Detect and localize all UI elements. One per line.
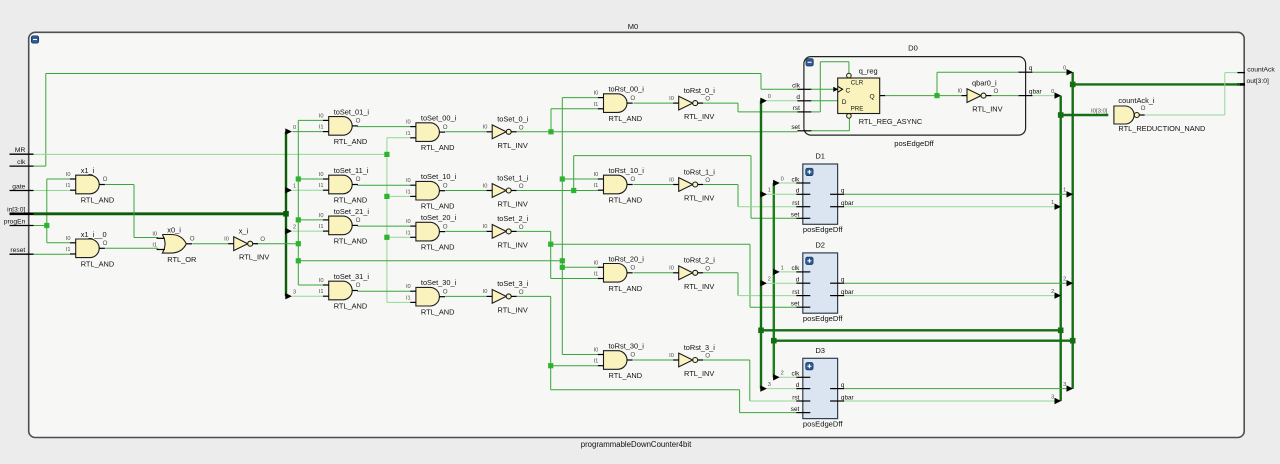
svg-text:O: O [356, 118, 361, 125]
svg-text:out[3:0]: out[3:0] [1247, 78, 1269, 85]
svg-text:O: O [356, 217, 361, 224]
svg-text:I1: I1 [594, 272, 599, 278]
svg-text:O: O [519, 124, 524, 131]
svg-text:I0: I0 [319, 213, 324, 219]
svg-text:x0_i: x0_i [167, 225, 181, 234]
svg-text:M0: M0 [628, 22, 638, 31]
svg-text:toSet_30_i: toSet_30_i [421, 278, 457, 287]
svg-text:rst: rst [792, 200, 799, 207]
svg-text:q: q [841, 188, 845, 195]
svg-text:I0: I0 [406, 284, 411, 290]
svg-text:O: O [630, 95, 635, 102]
svg-text:O: O [630, 352, 635, 359]
svg-text:qbar: qbar [1029, 88, 1043, 95]
svg-text:RTL_AND: RTL_AND [609, 371, 643, 380]
svg-text:toRst_1_i: toRst_1_i [684, 167, 716, 176]
svg-text:rst: rst [793, 105, 800, 112]
svg-text:toRst_10_i: toRst_10_i [609, 166, 645, 175]
svg-text:d: d [796, 277, 800, 284]
svg-text:1: 1 [293, 184, 296, 190]
svg-text:set: set [791, 406, 800, 413]
svg-text:RTL_INV: RTL_INV [684, 282, 714, 291]
svg-text:1: 1 [1051, 200, 1054, 206]
svg-text:x_i: x_i [239, 227, 249, 236]
svg-text:I0: I0 [669, 177, 674, 183]
svg-text:O: O [443, 288, 448, 295]
svg-text:I0: I0 [483, 125, 488, 131]
svg-text:toSet_21_i: toSet_21_i [334, 207, 370, 216]
svg-text:RTL_INV: RTL_INV [239, 253, 269, 262]
svg-text:I1: I1 [406, 230, 411, 236]
svg-text:O: O [260, 236, 265, 243]
svg-text:I1: I1 [319, 125, 324, 131]
svg-text:I1: I1 [319, 289, 324, 295]
svg-text:toSet_01_i: toSet_01_i [334, 107, 370, 116]
svg-text:O: O [443, 182, 448, 189]
svg-text:O: O [1141, 105, 1146, 112]
svg-text:RTL_INV: RTL_INV [684, 369, 714, 378]
svg-text:I0: I0 [319, 172, 324, 178]
svg-text:I1: I1 [66, 183, 71, 189]
svg-text:D0: D0 [908, 43, 918, 52]
svg-text:RTL_INV: RTL_INV [498, 141, 528, 150]
svg-text:posEdgeDff: posEdgeDff [803, 225, 843, 234]
svg-text:O: O [356, 176, 361, 183]
svg-text:I1: I1 [406, 189, 411, 195]
svg-text:q_reg: q_reg [859, 66, 878, 75]
svg-text:O: O [705, 96, 710, 103]
svg-text:1: 1 [1063, 188, 1066, 194]
svg-text:RTL_AND: RTL_AND [334, 302, 368, 311]
svg-text:2: 2 [781, 371, 784, 377]
svg-text:2: 2 [1063, 277, 1066, 283]
svg-text:RTL_INV: RTL_INV [498, 305, 528, 314]
svg-text:I0: I0 [483, 289, 488, 295]
svg-text:toSet_11_i: toSet_11_i [334, 166, 369, 175]
svg-text:I0: I0 [594, 260, 599, 266]
svg-text:d: d [796, 188, 800, 195]
svg-text:O: O [705, 353, 710, 360]
svg-text:clk: clk [791, 371, 800, 378]
svg-text:RTL_REDUCTION_NAND: RTL_REDUCTION_NAND [1118, 124, 1205, 133]
svg-text:toRst_2_i: toRst_2_i [684, 256, 716, 265]
svg-text:toRst_00_i: toRst_00_i [609, 85, 645, 94]
svg-text:RTL_INV: RTL_INV [684, 194, 714, 203]
svg-text:D3: D3 [815, 346, 825, 355]
svg-text:I0: I0 [319, 113, 324, 119]
svg-text:toSet_1_i: toSet_1_i [497, 173, 529, 182]
svg-text:I0: I0 [669, 266, 674, 272]
svg-text:I1: I1 [406, 295, 411, 301]
svg-text:I0: I0 [594, 91, 599, 97]
svg-text:x1_i: x1_i [81, 166, 95, 175]
svg-text:O: O [103, 240, 108, 247]
svg-text:D2: D2 [815, 241, 825, 250]
svg-text:toSet_00_i: toSet_00_i [421, 114, 457, 123]
svg-text:PRE: PRE [851, 105, 864, 112]
svg-text:I0: I0 [669, 96, 674, 102]
svg-text:q: q [841, 277, 845, 284]
svg-text:qbar: qbar [841, 394, 855, 401]
svg-text:RTL_INV: RTL_INV [498, 200, 528, 209]
svg-text:RTL_REG_ASYNC: RTL_REG_ASYNC [859, 117, 923, 126]
svg-text:O: O [630, 265, 635, 272]
svg-text:progEn: progEn [4, 218, 26, 225]
svg-text:MR: MR [15, 147, 26, 154]
svg-text:I0: I0 [594, 348, 599, 354]
svg-text:I1: I1 [594, 359, 599, 365]
svg-text:rst: rst [792, 289, 799, 296]
svg-text:I0: I0 [594, 172, 599, 178]
svg-text:RTL_AND: RTL_AND [334, 236, 368, 245]
svg-text:RTL_AND: RTL_AND [421, 243, 455, 252]
svg-text:toRst_30_i: toRst_30_i [609, 342, 645, 351]
svg-text:3: 3 [1063, 382, 1066, 388]
svg-text:RTL_INV: RTL_INV [498, 240, 528, 249]
svg-text:in[3:0]: in[3:0] [7, 207, 25, 214]
svg-text:I0: I0 [406, 120, 411, 126]
svg-text:q: q [1029, 65, 1033, 72]
svg-text:I1: I1 [66, 247, 71, 253]
svg-text:I0: I0 [66, 236, 71, 242]
svg-text:clk: clk [791, 265, 800, 272]
svg-text:clk: clk [792, 83, 801, 90]
svg-text:RTL_OR: RTL_OR [167, 255, 196, 264]
svg-text:O: O [705, 265, 710, 272]
svg-text:toSet_0_i: toSet_0_i [497, 115, 529, 124]
svg-text:toSet_31_i: toSet_31_i [334, 272, 370, 281]
svg-text:0: 0 [781, 176, 784, 182]
svg-text:I0: I0 [224, 237, 229, 243]
svg-text:gate: gate [12, 183, 25, 190]
svg-text:RTL_AND: RTL_AND [334, 196, 368, 205]
svg-text:toSet_3_i: toSet_3_i [497, 279, 529, 288]
svg-text:toRst_20_i: toRst_20_i [609, 254, 645, 263]
svg-text:toSet_2_i: toSet_2_i [497, 214, 529, 223]
svg-text:2: 2 [768, 277, 771, 283]
svg-text:O: O [705, 177, 710, 184]
svg-text:O: O [994, 88, 999, 95]
svg-text:Q: Q [870, 93, 875, 100]
svg-text:0: 0 [768, 94, 771, 100]
svg-text:toSet_20_i: toSet_20_i [421, 213, 457, 222]
svg-text:RTL_INV: RTL_INV [972, 105, 1002, 114]
svg-text:clk: clk [17, 159, 26, 166]
svg-text:RTL_AND: RTL_AND [421, 308, 455, 317]
svg-text:I0[3:0]: I0[3:0] [1091, 109, 1108, 115]
svg-text:D1: D1 [815, 152, 825, 161]
svg-text:I0: I0 [669, 353, 674, 359]
svg-text:3: 3 [768, 382, 771, 388]
svg-text:RTL_AND: RTL_AND [421, 202, 455, 211]
svg-text:reset: reset [10, 247, 25, 254]
svg-text:O: O [103, 176, 108, 183]
svg-text:RTL_AND: RTL_AND [81, 259, 115, 268]
svg-text:countAck: countAck [1247, 66, 1275, 73]
svg-text:posEdgeDff: posEdgeDff [894, 139, 934, 148]
svg-text:RTL_AND: RTL_AND [421, 143, 455, 152]
svg-text:O: O [519, 183, 524, 190]
svg-text:x1_i__0: x1_i__0 [81, 230, 107, 239]
svg-text:I0: I0 [406, 219, 411, 225]
svg-text:O: O [519, 289, 524, 296]
svg-text:RTL_AND: RTL_AND [609, 284, 643, 293]
svg-text:I1: I1 [406, 131, 411, 137]
svg-text:I0: I0 [66, 172, 71, 178]
svg-text:clk: clk [791, 176, 800, 183]
svg-text:3: 3 [293, 290, 296, 296]
svg-text:RTL_AND: RTL_AND [609, 196, 643, 205]
svg-text:set: set [791, 124, 800, 131]
svg-text:I1: I1 [152, 243, 157, 249]
svg-text:C: C [846, 87, 851, 94]
svg-text:rst: rst [792, 394, 799, 401]
svg-text:d: d [796, 382, 800, 389]
svg-text:RTL_AND: RTL_AND [609, 114, 643, 123]
svg-text:I0: I0 [483, 224, 488, 230]
svg-text:I1: I1 [319, 224, 324, 230]
svg-text:set: set [791, 212, 800, 219]
svg-text:q: q [841, 382, 845, 389]
svg-text:1: 1 [781, 265, 784, 271]
svg-text:O: O [190, 236, 195, 243]
svg-text:O: O [443, 223, 448, 230]
svg-text:qbar: qbar [841, 289, 855, 296]
svg-text:RTL_INV: RTL_INV [684, 112, 714, 121]
svg-text:CLR: CLR [851, 80, 864, 87]
svg-text:O: O [443, 124, 448, 131]
svg-text:I0: I0 [152, 231, 157, 237]
svg-text:I0: I0 [406, 178, 411, 184]
svg-text:O: O [356, 282, 361, 289]
svg-text:qbar: qbar [841, 200, 855, 207]
svg-text:qbar0_i: qbar0_i [972, 78, 997, 87]
svg-text:O: O [519, 224, 524, 231]
svg-text:I0: I0 [319, 278, 324, 284]
svg-text:programmableDownCounter4bit: programmableDownCounter4bit [581, 440, 692, 449]
svg-text:0: 0 [1063, 66, 1066, 72]
svg-text:2: 2 [1051, 289, 1054, 295]
svg-text:RTL_AND: RTL_AND [81, 196, 115, 205]
svg-text:I1: I1 [594, 102, 599, 108]
svg-text:posEdgeDff: posEdgeDff [803, 420, 843, 429]
svg-text:toRst_0_i: toRst_0_i [684, 86, 716, 95]
svg-text:I0: I0 [957, 88, 962, 94]
svg-text:d: d [796, 94, 800, 101]
svg-text:countAck_i: countAck_i [1118, 96, 1155, 105]
svg-text:I0: I0 [483, 183, 488, 189]
svg-text:RTL_AND: RTL_AND [334, 137, 368, 146]
svg-text:posEdgeDff: posEdgeDff [803, 314, 843, 323]
svg-text:toSet_10_i: toSet_10_i [421, 172, 457, 181]
svg-text:O: O [630, 176, 635, 183]
svg-text:toRst_3_i: toRst_3_i [684, 343, 716, 352]
svg-text:0: 0 [293, 125, 296, 131]
svg-text:2: 2 [293, 225, 296, 231]
svg-text:0: 0 [1051, 89, 1054, 95]
svg-text:3: 3 [1051, 394, 1054, 400]
svg-text:D: D [842, 99, 847, 106]
svg-text:I1: I1 [319, 183, 324, 189]
svg-text:1: 1 [768, 188, 771, 194]
svg-text:set: set [791, 301, 800, 308]
svg-text:I1: I1 [594, 183, 599, 189]
